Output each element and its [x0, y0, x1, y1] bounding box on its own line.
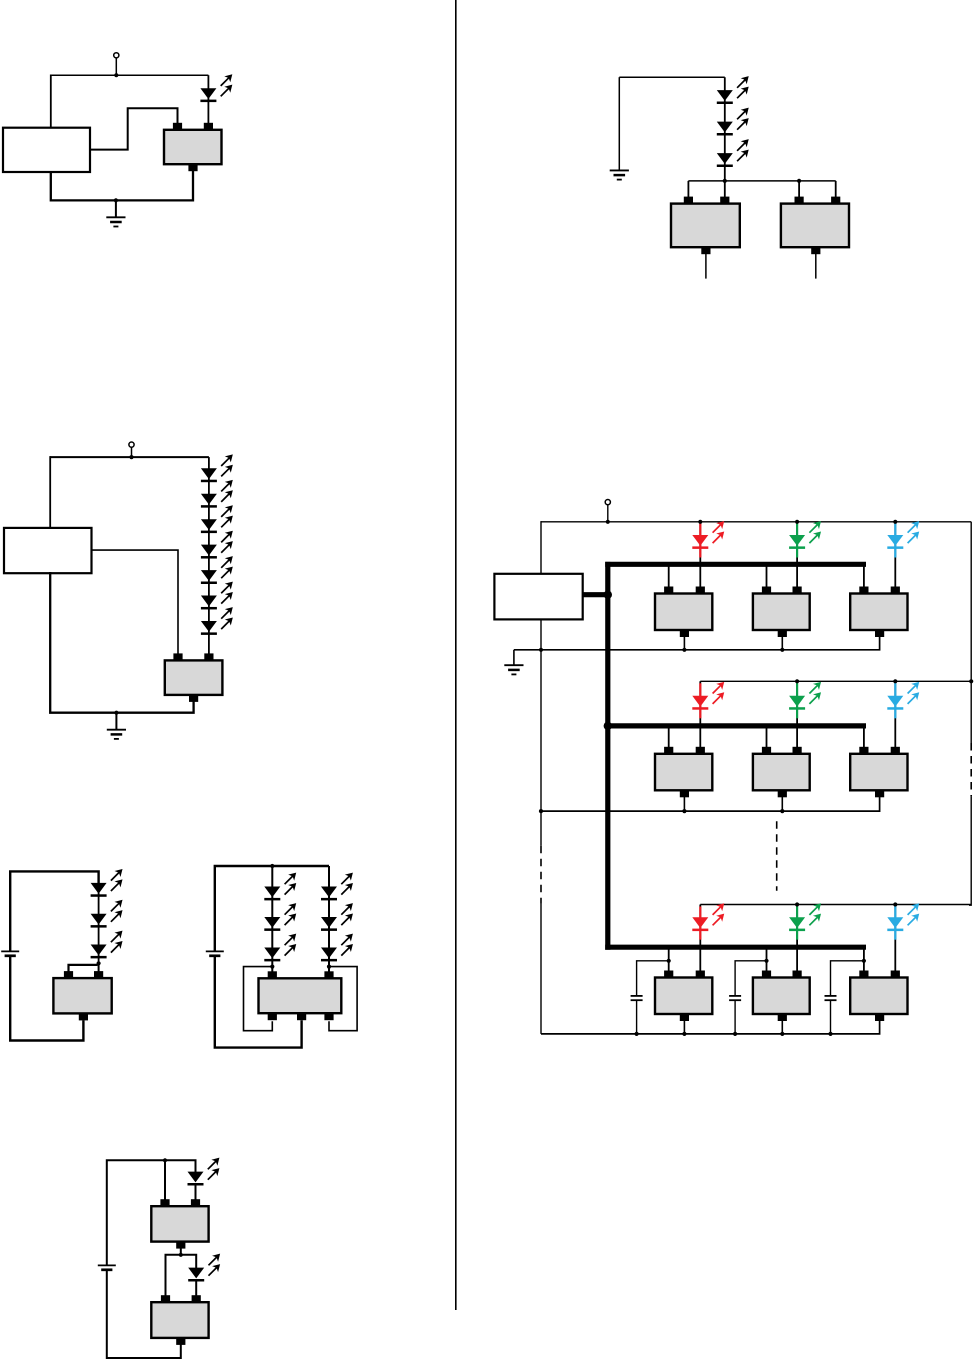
LED D20 — [717, 77, 748, 104]
wire stage link — [180, 1248, 182, 1254]
junction blue column row 1 — [893, 520, 897, 524]
wire green LED lead — [796, 524, 798, 558]
wire C1 top lead — [637, 961, 669, 996]
wire VIN stem — [115, 58, 117, 75]
junction U101 return — [682, 809, 686, 813]
wire LED 2 cathode — [195, 1280, 197, 1296]
LED D3 — [201, 480, 232, 507]
wire paralleling rail — [688, 180, 835, 182]
wire row continuation (dashed) — [776, 821, 778, 891]
wire bus drop to U103 — [863, 726, 865, 747]
junction C2 return — [733, 1032, 737, 1036]
LED D13 — [264, 904, 295, 931]
LED D9 — [91, 870, 122, 897]
wire bus drop to U112 — [766, 947, 768, 971]
wire to driver input — [98, 963, 100, 971]
LED green (row 1) — [789, 522, 820, 549]
junction C1 return — [635, 1032, 639, 1036]
wire green LED lead — [796, 907, 798, 940]
LED D14 — [264, 934, 295, 961]
supply terminal VLED — [605, 500, 610, 505]
wire VIN rail — [50, 456, 209, 458]
junction U102 return — [780, 809, 784, 813]
wire U101 return — [683, 792, 685, 811]
wire to U8 pin 2 — [835, 181, 837, 197]
wire right anode rail continuation (dashed) — [970, 743, 972, 796]
wire bus drop to U113 — [863, 947, 865, 971]
LED D22 — [717, 140, 748, 167]
wire C3 bottom lead — [830, 1001, 832, 1034]
LED D6 — [201, 557, 232, 584]
LED driver U3 — [53, 971, 111, 1020]
ground (circuit 5) — [610, 170, 629, 179]
wire bus drop to U93 — [863, 564, 865, 587]
junction drive bus row 2 tap — [604, 722, 612, 730]
wire LED string B — [328, 866, 330, 967]
wire to driver 1 input — [164, 1160, 166, 1199]
wire VIN rail — [51, 74, 209, 76]
capacitor C1 — [631, 996, 643, 1000]
battery BT1 — [1, 951, 19, 955]
wire battery negative — [215, 955, 302, 1047]
junction ground node — [114, 711, 118, 715]
junction ground node — [114, 198, 118, 202]
wire ground stem — [115, 200, 117, 217]
wire to driver 2 input — [166, 1255, 181, 1296]
LED green (row 2) — [789, 683, 820, 710]
junction C1 tap — [667, 959, 671, 963]
wire left return rail upper — [540, 619, 542, 845]
junction U91 return — [682, 648, 686, 652]
wire VLED to controller — [540, 521, 542, 574]
wire row 2 ground rail — [541, 792, 880, 811]
capacitor C3 — [825, 996, 837, 1000]
wire red LED lead — [699, 907, 701, 940]
LED D10 — [91, 900, 122, 927]
wire ground stem — [115, 713, 117, 730]
column divider rule — [455, 0, 457, 1310]
wire row 2 anode rail — [700, 680, 971, 682]
LED D19 — [188, 1254, 219, 1281]
LED D17 — [321, 934, 352, 961]
junction C3 return — [828, 1032, 832, 1036]
battery BT2 — [206, 951, 224, 955]
LED D1 — [200, 75, 231, 102]
wire LED string A — [271, 866, 273, 967]
LED D18 — [188, 1158, 219, 1185]
junction U112 return — [780, 1032, 784, 1036]
controller block A1 — [3, 128, 90, 172]
wire right anode rail upper — [970, 522, 972, 743]
wire U111 return — [683, 1016, 685, 1034]
wire feedback B loop — [329, 967, 357, 1031]
junction VIN node — [129, 455, 133, 459]
LED driver U102 — [753, 747, 810, 798]
battery BT3 — [98, 1265, 116, 1269]
wire drive bus vertical — [605, 562, 610, 950]
junction U92 return — [780, 648, 784, 652]
LED D4 — [201, 506, 232, 533]
wire C2 bottom lead — [734, 1001, 736, 1034]
LED driver U8 — [781, 197, 849, 255]
LED driver U112 — [753, 971, 810, 1022]
LED D8 — [201, 608, 232, 635]
wire string A to pin — [271, 967, 273, 972]
wire red LED column — [699, 522, 701, 587]
wire drive bus stub — [583, 592, 608, 597]
junction right rail row 2 — [969, 679, 973, 683]
junction green column row 2 — [795, 679, 799, 683]
wire U7 output lead — [705, 254, 707, 279]
wire to U8 pin 1 — [798, 181, 800, 197]
junction input tap — [163, 1158, 167, 1162]
wire to LED 2 — [181, 1255, 196, 1269]
junction drive bus tap — [604, 591, 612, 599]
LED red (row 2) — [692, 683, 723, 710]
LED driver U101 — [655, 747, 712, 798]
LED driver U2 — [165, 653, 223, 702]
junction LED string node — [723, 179, 727, 183]
junction C2 tap — [764, 959, 768, 963]
ground (circuit 6) — [504, 665, 523, 674]
LED red (row N) — [692, 904, 723, 931]
LED blue (row 1) — [887, 522, 918, 549]
wire U91 return — [683, 632, 685, 650]
wire to U7 pin 1 — [687, 181, 689, 197]
junction red column row 1 — [698, 520, 702, 524]
supply terminal VIN (circuit 2) — [129, 442, 134, 447]
junction string A tap — [270, 864, 274, 868]
wire U92 return — [781, 632, 783, 650]
junction C3 tap — [862, 959, 866, 963]
LED driver U6 — [151, 1295, 208, 1345]
wire U112 return — [781, 1016, 783, 1034]
wire bus drop to U91 — [668, 564, 670, 587]
wire red LED column — [699, 905, 701, 972]
junction green column row 1 — [795, 520, 799, 524]
controller block A3 — [494, 574, 582, 620]
junction U111 return — [682, 1032, 686, 1036]
junction blue column row N — [893, 902, 897, 906]
wire U102 return — [781, 792, 783, 811]
wire feedback — [69, 965, 98, 972]
junction row 1 ground tap — [539, 648, 543, 652]
wire battery positive — [107, 1160, 196, 1265]
LED driver U111 — [655, 971, 712, 1022]
wire VLED stem — [607, 505, 609, 522]
LED D16 — [321, 904, 352, 931]
wire drive bus row 1 — [605, 562, 866, 567]
wire bus drop to U111 — [668, 947, 670, 971]
wire blue LED lead — [894, 907, 896, 940]
wire battery negative — [10, 955, 83, 1040]
wire enable signal — [92, 550, 179, 654]
LED driver U91 — [655, 587, 712, 638]
wire row N ground rail — [541, 1016, 880, 1034]
LED D11 — [91, 931, 122, 958]
LED D15 — [321, 873, 352, 900]
wire green LED column — [796, 681, 798, 747]
wire C1 bottom lead — [636, 1001, 638, 1034]
LED driver U113 — [850, 971, 907, 1022]
wire VIN to controller — [50, 75, 52, 128]
LED driver U103 — [850, 747, 907, 798]
wire feedback A loop — [244, 967, 273, 1031]
wire green LED column — [796, 522, 798, 587]
LED driver U5 — [151, 1199, 208, 1248]
wire ground stem — [513, 650, 515, 665]
wire row 1 ground rail — [514, 632, 880, 650]
wire left return rail continuation (dashed) — [540, 846, 542, 904]
wire LED string — [98, 871, 100, 963]
wire bus drop to U102 — [766, 726, 768, 747]
LED driver U4 — [259, 971, 342, 1020]
LED driver U1 — [164, 123, 222, 171]
LED driver U93 — [850, 587, 907, 638]
wire C2 top lead — [735, 961, 766, 996]
controller block A2 — [4, 528, 92, 573]
wire blue LED column — [894, 681, 896, 747]
junction row 2 ground tap — [539, 809, 543, 813]
LED D12 — [264, 873, 295, 900]
wire blue LED column — [894, 522, 896, 587]
wire green LED lead — [796, 683, 798, 718]
wire battery negative — [107, 1270, 181, 1358]
wire ground return — [51, 171, 193, 200]
wire LED string — [724, 77, 726, 197]
junction stage link — [179, 1253, 183, 1257]
wire left return rail lower — [540, 904, 542, 1034]
wire red LED column — [699, 681, 701, 747]
wire battery positive — [10, 871, 98, 951]
wire battery positive — [215, 866, 329, 951]
LED D7 — [201, 582, 232, 609]
wire green LED column — [796, 905, 798, 972]
wire blue LED lead — [894, 683, 896, 718]
wire U8 output lead — [815, 254, 817, 279]
LED driver U92 — [753, 587, 810, 638]
junction VIN node — [114, 73, 118, 77]
wire blue LED lead — [894, 524, 896, 558]
junction blue column row 2 — [893, 679, 897, 683]
wire VIN stem — [131, 447, 133, 457]
wire string B to pin — [328, 967, 330, 972]
wire LED branch — [207, 75, 209, 123]
wire row N anode rail — [700, 904, 971, 906]
LED D21 — [717, 108, 748, 135]
junction string A sense — [270, 965, 274, 969]
wire VIN to controller — [49, 456, 51, 528]
wire drive bus row 2 — [605, 723, 866, 728]
wire bus drop to U92 — [766, 564, 768, 587]
wire blue LED column — [894, 905, 896, 972]
wire LED string — [208, 457, 210, 654]
wire C3 top lead — [831, 961, 864, 996]
LED driver U7 — [671, 197, 740, 255]
junction driver 2 tap — [797, 179, 801, 183]
wire LED 1 cathode — [195, 1184, 197, 1200]
wire to ground — [618, 77, 620, 170]
junction green column row N — [795, 902, 799, 906]
wire bus drop to U101 — [668, 726, 670, 747]
wire red LED lead — [699, 683, 701, 718]
wire right anode rail lower — [969, 796, 971, 905]
junction sense node — [97, 961, 101, 965]
wire ground return — [50, 572, 193, 713]
ground (circuit 1) — [106, 217, 125, 226]
wire red LED lead — [699, 524, 701, 558]
LED red (row 1) — [692, 522, 723, 549]
junction VLED node — [606, 520, 610, 524]
LED D2 — [201, 455, 232, 482]
supply terminal VIN (circuit 1) — [114, 53, 119, 58]
junction string B sense — [327, 965, 331, 969]
LED blue (row N) — [887, 904, 918, 931]
LED green (row N) — [789, 904, 820, 931]
wire enable signal — [90, 108, 178, 149]
ground (circuit 2) — [107, 730, 126, 739]
LED blue (row 2) — [887, 683, 918, 710]
wire VLED top rail — [541, 521, 971, 523]
wire drive bus row N — [605, 945, 866, 950]
LED D5 — [201, 531, 232, 558]
wire cathode rail — [619, 76, 725, 78]
capacitor C2 — [729, 996, 741, 1000]
